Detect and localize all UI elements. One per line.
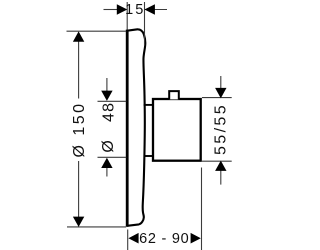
right leader [145,9,167,11]
arrowhead up for 55/55 [215,161,226,171]
top extension line [67,30,127,32]
dimension Ø150 (plate diameter, left) [67,31,127,227]
arrowhead up for Ø48 [101,158,112,168]
dimension 55/55 (valve body height, right) [202,76,232,185]
left leader [104,9,119,11]
top leader [106,78,108,92]
arrowhead up for Ø150 [73,31,84,41]
valve body box (side view) [153,99,201,161]
arrowhead down for 55/55 [215,88,226,98]
right extension line [201,168,203,250]
dimension 62 - 90 (installation depth, bottom) [128,168,202,250]
arrowhead left-pointing for 62-90 [128,233,138,244]
dimension 15 (top, plate depth) [104,2,168,46]
lower leader [78,161,80,219]
left extension line [126,2,128,30]
svg-text:15: 15 [125,2,145,18]
cartridge sleeve between plate and valve body [144,105,154,156]
top tick [98,100,127,102]
bottom leader [220,170,222,185]
arrowhead down for Ø48 [101,91,112,101]
arrowhead right-pointing for 62-90 [191,233,201,244]
arrowhead down for Ø150 [73,217,84,227]
bottom leader [106,167,108,177]
upper leader [78,40,80,99]
bottom tick [98,156,127,158]
svg-text:62 - 90: 62 - 90 [139,231,189,247]
arrowhead right-pointing for 15 [117,4,128,15]
knob tab on top of valve body [169,91,179,99]
bottom extension line [67,226,126,228]
top extension line [202,97,232,99]
dimension Ø48 (sleeve diameter) [98,78,127,177]
right extension line [144,2,146,46]
top leader [220,76,222,89]
svg-text:Ø 150: Ø 150 [71,101,88,157]
svg-text:55/55: 55/55 [213,103,230,155]
escutcheon plate (side profile) [127,29,145,226]
bottom extension line [202,160,232,162]
arrowhead left-pointing for 15 [144,4,155,15]
left extension line [127,230,129,250]
